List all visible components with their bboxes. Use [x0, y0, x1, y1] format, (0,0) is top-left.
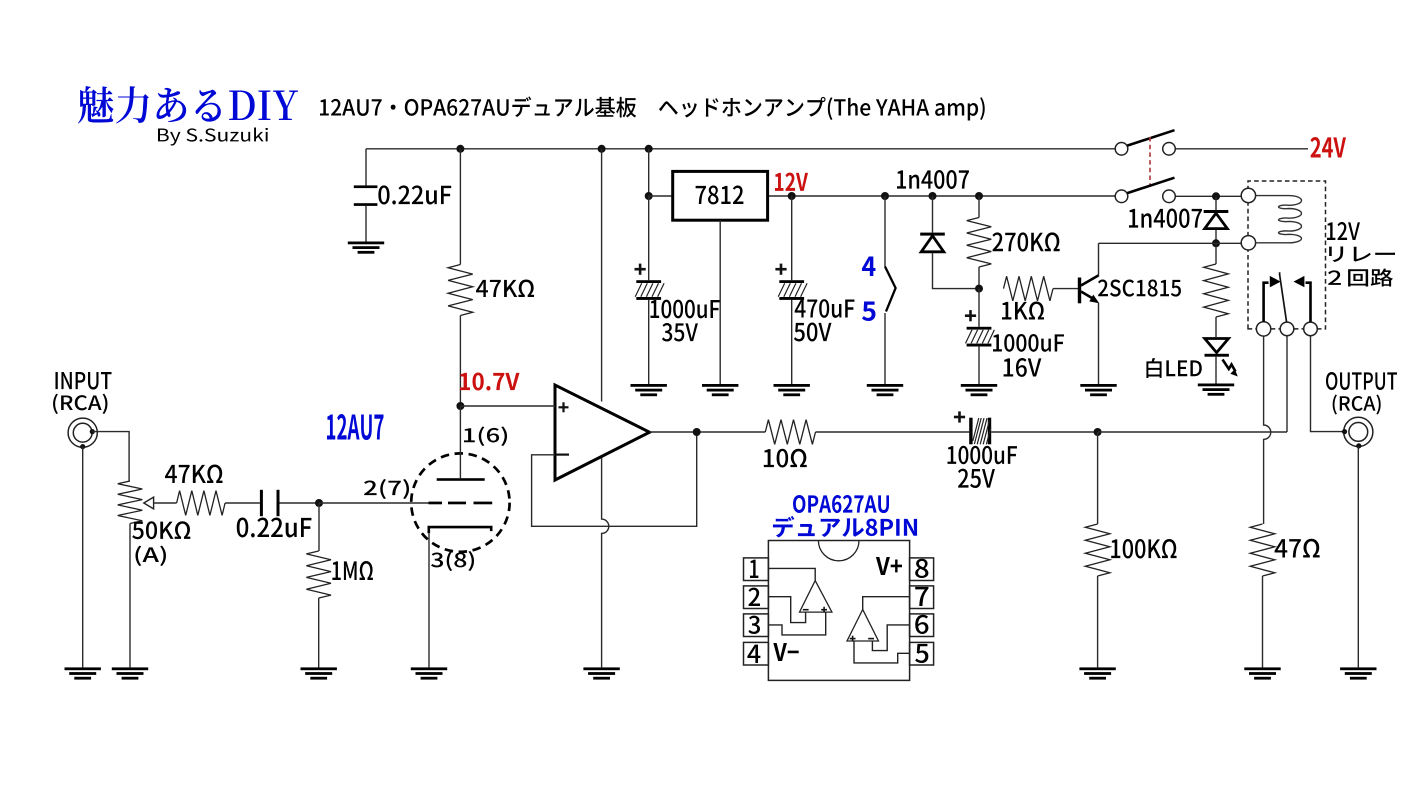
- resistor R9 47 ohm: [1250, 524, 1275, 576]
- wire op-amp V- to ground with hop over feedback: [602, 458, 609, 668]
- wire coil-low node down to R4: [1215, 243, 1217, 264]
- node junction top rail / 47K: [456, 145, 464, 153]
- relay movable contact arm: [1280, 272, 1287, 322]
- capacitor C2 1000uF/35V electrolytic: [635, 280, 664, 300]
- label 1K ohm (R3): [1002, 301, 1044, 319]
- ground below C4: [961, 384, 997, 396]
- wire op-amp V+ from rail: [601, 149, 603, 402]
- label INPUT: [55, 372, 111, 389]
- ground below C1: [348, 242, 384, 254]
- wire contact 5 to ground: [884, 313, 886, 384]
- wire op-amp output: [650, 431, 766, 433]
- wire R1 to plate node: [459, 316, 461, 407]
- node junction 12V rail / R2 270K: [975, 192, 983, 200]
- wire output jack shell to ground: [1357, 446, 1359, 667]
- switch gang link (red dashed): [1149, 137, 1151, 187]
- wire LED cathode to ground: [1215, 357, 1217, 384]
- wire U2 pin1 to opA output: [768, 568, 815, 580]
- wire from switch S1b to relay coil: [1176, 195, 1242, 197]
- label 24V: [1310, 137, 1346, 158]
- label リレー: [1329, 247, 1395, 263]
- ground below R6: [301, 667, 337, 679]
- label 1000uF (C2): [650, 300, 719, 319]
- ground below C3: [774, 384, 810, 396]
- relay contact NO terminal circle (right): [1304, 322, 1318, 336]
- tube plate bar: [437, 478, 485, 481]
- label V+ inside U2: [876, 557, 902, 575]
- label ２回路: [1328, 268, 1393, 286]
- label 12AU7 (blue): [327, 414, 384, 440]
- wire junction down to contact 4: [884, 196, 886, 267]
- label 100K ohm (R8): [1111, 539, 1176, 559]
- IC U2 pin box 2 (left): [744, 586, 769, 609]
- wire coil low node to relay coil terminal: [1216, 242, 1241, 244]
- plus sign C4: [965, 310, 976, 321]
- wire plate node to op-amp +input: [460, 405, 555, 407]
- wire junction down to R2: [978, 196, 980, 218]
- label 0.22uF (C1): [378, 185, 451, 204]
- wire R4 to LED: [1215, 317, 1217, 337]
- wire relay right riser to output jack: [1311, 336, 1344, 432]
- title logo 魅力あるDIY: [78, 86, 298, 123]
- label 16V (C4): [1004, 358, 1042, 377]
- wire R5 to C5: [225, 502, 260, 504]
- IC U2 pin box 7 (right): [910, 586, 934, 609]
- node grid junction: [315, 499, 323, 507]
- ground below output jack: [1340, 667, 1376, 679]
- wire jack pin to volume pot: [92, 432, 129, 481]
- label 47 ohm (R9): [1275, 539, 1320, 558]
- wire 7812 ground pin: [719, 220, 721, 384]
- relay fixed contact left with arrow: [1264, 283, 1269, 322]
- output RCA jack: [1344, 417, 1373, 446]
- wire from switch S1a to 24V label: [1176, 148, 1308, 150]
- label pin number 1: [750, 560, 758, 578]
- op-amp B triangle inside U2: [847, 610, 879, 642]
- wire C1 to ground: [365, 206, 367, 242]
- node junction 12V rail / D1: [929, 192, 937, 200]
- ground below Q1: [1080, 384, 1116, 396]
- label 35V (C2): [662, 323, 698, 342]
- wire base node down to C4: [978, 289, 980, 327]
- wire R8 to ground: [1097, 576, 1099, 667]
- node junction top rail / 7812 input: [645, 145, 653, 153]
- resistor R8 100K ohm: [1085, 524, 1110, 576]
- label 270K ohm (R2): [992, 232, 1059, 251]
- capacitor C3 470uF/50V electrolytic: [778, 280, 807, 300]
- wire C2 to ground: [648, 300, 650, 384]
- plus sign C6: [954, 411, 965, 422]
- label (A) taper: [135, 546, 166, 566]
- wire junction down to C3: [791, 196, 793, 280]
- resistor R6 1M ohm (grid leak): [306, 551, 331, 598]
- IC 7812 voltage regulator box: [673, 171, 768, 220]
- input RCA jack: [68, 418, 97, 447]
- IC U2 pin box 1 (left): [744, 558, 769, 581]
- IC U2 pin box 3 (left): [744, 614, 769, 637]
- wire 12V rail from 7812 output to switch S1b: [768, 195, 1115, 197]
- label 50V (C3): [794, 322, 832, 341]
- subtitle 12AU7・OPA627AU dual board headphone amp (The YAHA amp): [320, 96, 985, 120]
- node output load junction: [1094, 428, 1102, 436]
- wire Q1 collector up to relay coil line: [1098, 243, 1100, 276]
- relay contact common terminal circle: [1280, 322, 1294, 336]
- label デュアル8PIN (blue): [773, 516, 917, 537]
- ground below op-amp: [583, 667, 619, 679]
- potentiometer VR1 50K(A) element: [118, 481, 143, 524]
- op-amp B minus sign: [868, 638, 874, 640]
- label pin 4 (blue): [862, 257, 875, 276]
- op-amp A plus sign: [821, 607, 827, 613]
- label 50K ohm (A) pot value: [132, 521, 190, 539]
- label 25V (C6): [958, 469, 995, 488]
- ground below connector 4-5: [867, 384, 903, 396]
- node junction 12V rail / C3: [788, 192, 796, 200]
- ground below 7812: [702, 384, 738, 396]
- resistor R4 (LED series): [1204, 264, 1229, 317]
- transistor Q1 collector lead: [1081, 275, 1099, 285]
- potentiometer wiper arrow: [144, 497, 154, 509]
- op-amp B plus sign: [850, 636, 856, 642]
- tube grid (dashed): [429, 502, 493, 505]
- label 1M ohm (R6): [332, 561, 373, 580]
- node junction 12V switched / D2 cathode: [1212, 192, 1220, 200]
- wire C4 to ground: [978, 347, 980, 384]
- ground below C2: [631, 384, 667, 396]
- byline By S.Suzuki: [158, 128, 268, 146]
- wire jack shell to ground: [82, 447, 84, 668]
- capacitor C4 1000uF/16V electrolytic: [966, 327, 995, 347]
- wire R3 to Q1 base: [1053, 288, 1078, 290]
- resistor R5 47K ohm (grid stopper): [177, 491, 226, 516]
- IC U2 pin box 5 (right): [910, 642, 934, 665]
- resistor R2 270K ohm: [967, 218, 992, 268]
- wire U2 pin6 to opB -input: [872, 625, 909, 651]
- ground below cathode: [411, 667, 447, 679]
- wire wiper to R5: [154, 502, 177, 504]
- ground below input jack: [65, 667, 101, 679]
- wire cathode lead to ground: [428, 533, 430, 667]
- relay coil winding: [1256, 196, 1302, 243]
- relay coil terminal bottom circle: [1241, 236, 1255, 250]
- label 12V output (red): [775, 173, 808, 191]
- plus sign C3: [775, 264, 786, 275]
- wire rail to R1 47K: [459, 149, 461, 265]
- label pin number 7: [915, 587, 928, 606]
- label 47K ohm (R1): [476, 279, 534, 297]
- wire grid node down to R6: [318, 503, 320, 551]
- wire D1 anode down and right to base node: [933, 253, 980, 289]
- wire plate lead: [459, 406, 461, 478]
- resistor R7 10 ohm: [765, 420, 815, 445]
- capacitor C5 0.22uF coupling plates: [260, 490, 263, 516]
- label 0.22uF (C5): [237, 517, 312, 537]
- label 1000uF (C6): [947, 446, 1016, 464]
- node output junction: [693, 428, 701, 436]
- IC U2 pin box 4 (left): [744, 642, 769, 665]
- relay coil terminal top circle: [1241, 188, 1255, 202]
- label 1n4007 (D2): [1129, 208, 1202, 228]
- wire R9 to ground: [1262, 576, 1264, 667]
- wire C6 to output node: [991, 431, 1097, 433]
- label pin number 5: [915, 644, 928, 663]
- ground below R9: [1244, 667, 1280, 679]
- label OPA627AU (blue): [793, 495, 889, 513]
- node 7812 input junction: [645, 192, 653, 200]
- wire U2 pin7 to opB output: [863, 597, 910, 610]
- label pin number 6: [915, 615, 928, 634]
- wire feedback from -input: [532, 432, 697, 526]
- op-amp U1 triangle: [555, 385, 650, 480]
- IC U2 pin box 8 (right): [910, 558, 934, 581]
- label V- inside U2: [773, 643, 798, 661]
- switch S1b lever: [1127, 178, 1174, 193]
- wire pot bottom to ground: [129, 524, 131, 668]
- wire junction down to D1: [932, 196, 934, 233]
- wire coil low node to Q1 collector: [1099, 242, 1217, 244]
- tube V1 12AU7 envelope (dashed circle): [411, 453, 509, 551]
- wire grid node to tube grid: [319, 502, 429, 504]
- wire R7 to C6: [816, 431, 970, 433]
- ground below R8: [1079, 667, 1115, 679]
- tube cathode: [429, 527, 491, 533]
- label 1000uF (C4): [993, 334, 1064, 352]
- LED D3 white: [1205, 339, 1229, 357]
- wire relay common riser: [1286, 336, 1288, 432]
- node junction 12V rail / connector 4-5: [881, 192, 889, 200]
- label pin 2(7): [364, 479, 409, 499]
- op-amp A minus sign: [803, 609, 809, 611]
- wire R6 to ground: [318, 598, 320, 667]
- node output jack shell dot: [1356, 443, 1361, 448]
- node jack pin dot: [90, 429, 95, 434]
- diode D1 1n4007: [920, 233, 945, 252]
- wire Q1 emitter to ground: [1098, 303, 1100, 384]
- diode D2 1n4007 flyback: [1204, 210, 1229, 229]
- label OUTPUT: [1326, 372, 1397, 390]
- IC U2 pin box 6 (right): [910, 614, 934, 637]
- label pin number 3: [748, 616, 760, 634]
- transistor Q1 emitter lead with arrow: [1081, 292, 1095, 300]
- wire U2 pin2 to opA -input: [768, 597, 805, 623]
- label 47K ohm (R5): [165, 464, 223, 483]
- node plate junction 10.7V: [456, 402, 464, 410]
- relay dashed enclosure box: [1248, 181, 1326, 329]
- wire 24V top rail: [366, 148, 1115, 150]
- label 7812: [696, 185, 744, 204]
- plus sign C2: [635, 264, 646, 275]
- node output jack pin dot: [1342, 429, 1347, 434]
- wire U2 pin5 to opB +input: [854, 641, 910, 663]
- label 1n4007 (D1): [897, 170, 969, 189]
- wire rail to 7812 input: [648, 149, 650, 196]
- switch S1a lever: [1127, 130, 1174, 145]
- ground below LED: [1198, 384, 1234, 396]
- label 白LED: [1146, 358, 1201, 378]
- label (RCA) input: [53, 394, 107, 414]
- LED light arrow: [1223, 360, 1236, 372]
- wire C3 to ground: [791, 300, 793, 384]
- node junction top rail / op-amp V+ line: [598, 145, 606, 153]
- label pin number 4: [747, 645, 760, 663]
- wire output node to relay common riser: [1098, 431, 1287, 433]
- label pin number 8: [915, 559, 928, 578]
- op-amp minus input sign: [556, 454, 569, 456]
- label 12V (relay): [1327, 222, 1360, 240]
- wire R2 to base node: [978, 267, 980, 289]
- IC U2 DIP-8 body: [768, 541, 909, 681]
- label pin number 2: [748, 588, 760, 606]
- node coil low junction: [1212, 239, 1220, 247]
- wire U2 pin3 to opA +input: [768, 612, 825, 635]
- wire C5 to grid node: [280, 502, 320, 504]
- node jack shell dot: [80, 444, 85, 449]
- op-amp plus input sign: [559, 402, 569, 412]
- transistor Q1 2SC1815 base bar: [1078, 278, 1081, 304]
- relay contact NO terminal circle (left): [1256, 322, 1270, 336]
- wire 100K riser: [1097, 432, 1099, 524]
- wire 7812 input junction down to C2: [648, 196, 650, 280]
- capacitor C6 1000uF/25V output electrolytic: [969, 418, 991, 445]
- switch S1a contact circles: [1115, 143, 1128, 156]
- op-amp A triangle inside U2: [800, 581, 832, 613]
- resistor R3 1K ohm (base): [1004, 276, 1054, 301]
- capacitor C1 0.22uF plates: [354, 185, 378, 188]
- node base divider junction: [975, 285, 983, 293]
- label pin 5 (blue): [862, 302, 876, 322]
- connector contact 4-5 bent lever: [885, 267, 896, 312]
- wire relay NO-left riser with hop over output wire: [1264, 336, 1271, 524]
- wire into 7812: [649, 195, 672, 197]
- label 10.7V (red): [460, 372, 520, 390]
- label pin 3(8): [431, 551, 474, 571]
- relay fixed contact right with arrow: [1306, 283, 1311, 322]
- wire D2 anode to coil-low node: [1215, 230, 1217, 244]
- wire junction down to D2: [1215, 196, 1217, 210]
- switch S1b contact circles: [1115, 190, 1128, 203]
- IC U2 notch: [818, 541, 859, 561]
- label 2SC1815 (Q1): [1098, 280, 1181, 297]
- wire rail left end down to C1: [365, 149, 367, 186]
- label 470uF (C3): [795, 299, 855, 318]
- ground below pot: [112, 667, 148, 679]
- label 10 ohm (R7): [764, 449, 807, 468]
- label (RCA) output: [1333, 394, 1381, 414]
- resistor R1 47K ohm (plate load): [448, 265, 473, 316]
- label pin 1(6): [464, 426, 507, 446]
